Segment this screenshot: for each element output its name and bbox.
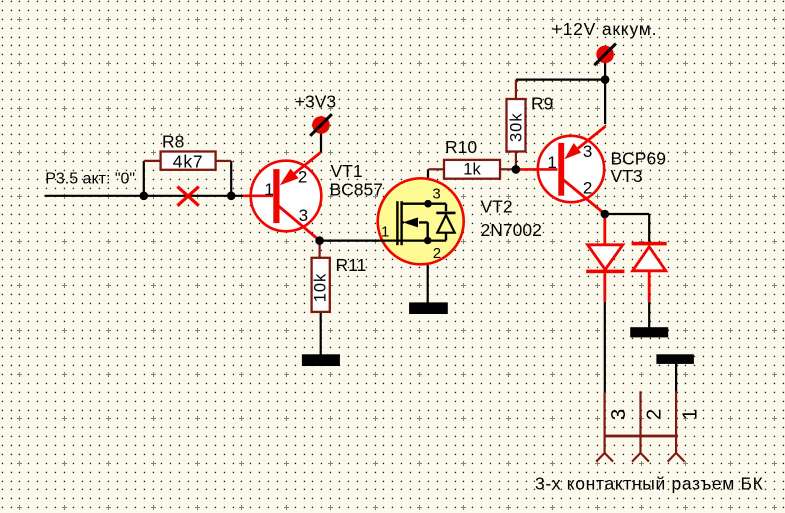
svg-text:30k: 30k	[508, 112, 526, 142]
svg-text:R11: R11	[336, 255, 367, 275]
svg-text:1: 1	[679, 409, 701, 420]
svg-text:1: 1	[264, 180, 273, 199]
svg-text:R10: R10	[445, 137, 477, 157]
svg-text:VT2: VT2	[481, 196, 513, 216]
svg-text:10k: 10k	[312, 273, 330, 303]
svg-text:+3V3: +3V3	[295, 91, 336, 111]
svg-text:1k: 1k	[463, 161, 481, 179]
svg-text:+12V аккум.: +12V аккум.	[552, 19, 658, 39]
svg-text:VT1: VT1	[331, 161, 363, 181]
svg-text:3: 3	[299, 206, 308, 225]
svg-text:2: 2	[298, 167, 307, 186]
svg-text:3: 3	[583, 142, 592, 161]
svg-text:3: 3	[432, 186, 440, 203]
svg-text:R9: R9	[531, 93, 553, 113]
svg-text:3: 3	[608, 409, 630, 420]
svg-text:3-х контактный разъем БК: 3-х контактный разъем БК	[535, 474, 764, 494]
svg-text:R8: R8	[162, 132, 184, 152]
svg-text:2: 2	[644, 409, 666, 420]
svg-text:VT3: VT3	[611, 166, 643, 186]
svg-text:2: 2	[583, 178, 592, 197]
svg-text:4k7: 4k7	[173, 151, 204, 171]
svg-text:BC857: BC857	[330, 180, 384, 200]
svg-text:1: 1	[547, 153, 556, 172]
svg-text:2: 2	[433, 245, 441, 262]
svg-text:2N7002: 2N7002	[481, 220, 542, 240]
svg-text:Р3.5 акт: "0": Р3.5 акт: "0"	[45, 170, 135, 187]
svg-text:1: 1	[381, 223, 389, 240]
